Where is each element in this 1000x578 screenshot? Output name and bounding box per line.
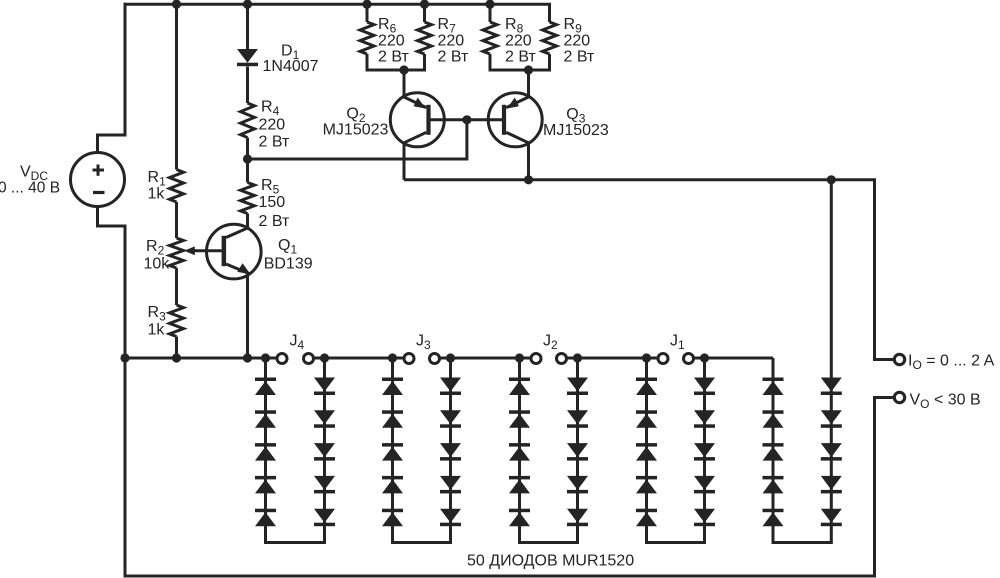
label R9 220 2W <box>564 16 595 66</box>
label J2 <box>543 333 558 353</box>
wire bottom row <box>578 357 647 360</box>
label 0 ... 40 V <box>0 180 60 197</box>
diode MUR1520 string4 right 2 <box>694 410 715 428</box>
svg-text:2 Вт: 2 Вт <box>438 49 469 66</box>
resistor R5 <box>241 183 255 214</box>
svg-text:220: 220 <box>438 33 465 50</box>
label D1 1N4007 <box>263 42 319 74</box>
label R1 1k <box>148 169 167 203</box>
wire top rail to R8 <box>489 4 492 22</box>
wire bottom rail <box>124 575 877 578</box>
wire top rail to R9 <box>548 4 551 22</box>
label Q2 MJ15023 <box>323 105 389 138</box>
wire R2-R3 <box>175 268 178 305</box>
diode MUR1520 string4 right 3 <box>694 443 715 461</box>
diode MUR1520 string1 left 3 <box>255 443 276 461</box>
diode MUR1520 string3 right 4 <box>567 476 588 494</box>
label J4 <box>290 333 305 353</box>
wire string3 bottom U <box>518 541 579 544</box>
junction top rail / R8 <box>485 0 494 9</box>
diode MUR1520 string2 left 2 <box>382 410 403 428</box>
diode MUR1520 string2 right 2 <box>440 410 461 428</box>
resistor R9 <box>543 22 557 54</box>
diode MUR1520 string4 left 3 <box>636 443 657 461</box>
wire R8-R9 junction bar <box>489 69 552 72</box>
diode MUR1520 string3 right 2 <box>567 410 588 428</box>
label R5 150 2W <box>259 177 290 230</box>
wire Q3 emitter <box>527 70 530 98</box>
junction base node <box>462 115 471 124</box>
junction row / string4 left <box>642 353 651 362</box>
wire string2 left column <box>391 358 394 543</box>
svg-text:BD139: BD139 <box>264 256 313 273</box>
wire string4 left column <box>645 358 648 543</box>
wire R9 bottom <box>548 54 551 70</box>
wire top rail to D1 <box>246 4 249 49</box>
diode MUR1520 string3 right 3 <box>567 443 588 461</box>
wire output rail <box>404 180 894 360</box>
wire R5 to Q1 collector <box>246 214 249 229</box>
diode MUR1520 string4 right 1 <box>694 378 715 396</box>
diode MUR1520 string5 left 1 <box>763 378 784 396</box>
diode MUR1520 string5 right 1 <box>821 378 842 396</box>
junction top rail / R7 <box>420 0 429 9</box>
node A junction <box>243 154 252 163</box>
wire bottom row <box>451 357 520 360</box>
label R4 220 2W <box>259 99 290 151</box>
wire Q1 emitter down <box>246 275 249 358</box>
wire Q3 collector down <box>527 142 530 180</box>
diode MUR1520 string1 right 5 <box>314 509 335 527</box>
wire VO return <box>875 398 895 577</box>
junction bottom row / Q1 emitter <box>243 353 252 362</box>
wire R3 bottom <box>175 337 178 359</box>
svg-text:R4: R4 <box>261 99 280 119</box>
label VO < 30 V <box>910 391 981 411</box>
wire string3 right column <box>576 358 579 543</box>
diode MUR1520 string5 left 4 <box>763 476 784 494</box>
junction row / string1 left <box>261 353 270 362</box>
junction R6 R7 / Q2 emitter <box>399 65 408 74</box>
diode MUR1520 string5 right 3 <box>821 443 842 461</box>
diode MUR1520 string4 left 4 <box>636 476 657 494</box>
diode MUR1520 string2 right 1 <box>440 378 461 396</box>
diode MUR1520 string2 left 5 <box>382 509 403 527</box>
potentiometer R2 <box>170 238 184 268</box>
wire string3 left column <box>518 358 521 543</box>
wire Q2 base to Q3 base <box>430 118 503 121</box>
label R6 220 2W <box>378 16 409 66</box>
svg-text:J3: J3 <box>416 333 431 353</box>
diode MUR1520 string1 right 4 <box>314 476 335 494</box>
diode MUR1520 string3 left 5 <box>509 509 530 527</box>
resistor R6 <box>360 22 374 54</box>
wire left rail lower <box>98 206 126 575</box>
svg-text:10k: 10k <box>144 255 171 272</box>
junction top rail / D1 column <box>243 0 252 9</box>
wire D1-R4 <box>246 67 249 104</box>
diode MUR1520 string1 right 3 <box>314 443 335 461</box>
svg-text:220: 220 <box>259 116 286 133</box>
svg-text:2 Вт: 2 Вт <box>259 213 290 230</box>
wire R7 bottom <box>423 54 426 70</box>
diode MUR1520 string3 left 1 <box>509 378 530 396</box>
label Q3 MJ15023 <box>543 106 609 139</box>
diode MUR1520 string2 left 1 <box>382 378 403 396</box>
junction row / string3 right <box>573 353 582 362</box>
diode MUR1520 string5 right 2 <box>821 410 842 428</box>
label R2 10k <box>144 238 171 272</box>
label R7 220 2W <box>438 16 469 66</box>
diode MUR1520 string1 left 1 <box>255 378 276 396</box>
jumper J4 <box>266 354 325 364</box>
diode MUR1520 string1 right 1 <box>314 378 335 396</box>
voltage source VDC <box>71 153 125 207</box>
terminal IO <box>894 354 904 364</box>
svg-text:2 Вт: 2 Вт <box>378 49 409 66</box>
transistor Q2 <box>390 93 444 147</box>
svg-text:1k: 1k <box>148 322 166 339</box>
junction row / string2 right <box>446 353 455 362</box>
svg-text:220: 220 <box>564 33 591 50</box>
wire row to string5 left <box>705 357 774 360</box>
diode MUR1520 string1 right 2 <box>314 410 335 428</box>
svg-text:IO = 0 ... 2 A: IO = 0 ... 2 A <box>908 352 995 372</box>
wire string4 bottom U <box>645 541 706 544</box>
svg-text:J2: J2 <box>543 333 558 353</box>
diode MUR1520 string5 left 3 <box>763 443 784 461</box>
diode MUR1520 string3 right 1 <box>567 378 588 396</box>
svg-text:0 ... 40 В: 0 ... 40 В <box>0 180 60 197</box>
diode MUR1520 string1 left 5 <box>255 509 276 527</box>
wire R6 bottom <box>366 54 369 70</box>
svg-text:2 Вт: 2 Вт <box>505 49 536 66</box>
label R8 220 2W <box>505 16 536 66</box>
wire left rail upper <box>98 3 126 153</box>
diode MUR1520 string4 left 2 <box>636 410 657 428</box>
diode MUR1520 string1 left 2 <box>255 410 276 428</box>
wire top rail to R6 <box>366 4 369 22</box>
junction R8 R9 / Q3 emitter <box>524 65 533 74</box>
label J1 <box>670 333 685 353</box>
wire top rail to R7 <box>423 4 426 22</box>
junction bottom row / left rail <box>120 353 129 362</box>
svg-text:220: 220 <box>505 33 532 50</box>
diode MUR1520 string2 left 4 <box>382 476 403 494</box>
svg-text:150: 150 <box>259 194 286 211</box>
svg-text:50 ДИОДОВ MUR1520: 50 ДИОДОВ MUR1520 <box>467 553 634 570</box>
transistor Q3 <box>488 93 542 147</box>
label Q1 BD139 <box>264 237 313 272</box>
wire string5 left column <box>772 358 775 543</box>
resistor R8 <box>483 22 497 54</box>
wire R1-R2 <box>175 202 178 238</box>
wire node A to base node <box>248 120 467 159</box>
diode MUR1520 string1 left 4 <box>255 476 276 494</box>
diode MUR1520 string5 right 4 <box>821 476 842 494</box>
diode MUR1520 string2 right 4 <box>440 476 461 494</box>
wire Q2 emitter <box>403 70 406 98</box>
transistor Q1 <box>207 224 262 279</box>
junction bottom row / R column <box>172 353 181 362</box>
diode MUR1520 string4 left 5 <box>636 509 657 527</box>
diode MUR1520 string3 left 2 <box>509 410 530 428</box>
junction row / string2 left <box>388 353 397 362</box>
svg-text:1N4007: 1N4007 <box>263 58 319 75</box>
diode MUR1520 string3 right 5 <box>567 509 588 527</box>
svg-text:J4: J4 <box>290 333 305 353</box>
resistor R4 <box>241 103 255 138</box>
label R3 1k <box>148 304 167 339</box>
resistor R7 <box>418 22 432 54</box>
label J3 <box>416 333 431 353</box>
terminal VO <box>894 392 904 402</box>
wire R column top <box>175 4 178 169</box>
jumper J2 <box>520 354 578 364</box>
diode MUR1520 string2 right 5 <box>440 509 461 527</box>
jumper J1 <box>647 354 705 364</box>
svg-text:MJ15023: MJ15023 <box>323 121 389 138</box>
svg-text:J1: J1 <box>670 333 685 353</box>
junction row / string4 right <box>700 353 709 362</box>
wire R6-R7 junction bar <box>366 69 427 72</box>
resistor R3 <box>170 305 184 337</box>
label 50 diodes MUR1520 <box>467 553 634 570</box>
svg-text:2 Вт: 2 Вт <box>564 49 595 66</box>
resistor R1 <box>170 170 184 203</box>
wire string1 left column <box>264 358 267 543</box>
wire string2 bottom U <box>391 541 452 544</box>
diode MUR1520 string3 left 3 <box>509 443 530 461</box>
svg-text:Q1: Q1 <box>278 237 297 257</box>
junction output rail / diode column 10 <box>827 175 836 184</box>
junction top rail / R column <box>172 0 181 9</box>
label VDC <box>20 164 48 184</box>
junction row / string3 left <box>515 353 524 362</box>
diode MUR1520 string4 left 1 <box>636 378 657 396</box>
diode MUR1520 string2 right 3 <box>440 443 461 461</box>
diode MUR1520 string2 left 3 <box>382 443 403 461</box>
svg-text:VO < 30 В: VO < 30 В <box>910 391 981 411</box>
wire string5 bottom U <box>772 541 833 544</box>
wire R4-R5 <box>246 138 249 183</box>
diode MUR1520 string5 right 5 <box>821 509 842 527</box>
junction row / string1 right <box>320 353 329 362</box>
diode MUR1520 string4 right 5 <box>694 509 715 527</box>
wire bottom row <box>325 357 393 360</box>
diode MUR1520 string5 left 2 <box>763 410 784 428</box>
wire string1 bottom U <box>264 541 326 544</box>
junction output rail / Q3 collector <box>524 175 533 184</box>
wire string1 right column <box>323 358 326 543</box>
diode MUR1520 string5 left 5 <box>763 509 784 527</box>
wire string5 right column <box>830 180 833 543</box>
jumper J3 <box>393 354 451 364</box>
wire string2 right column <box>449 358 452 543</box>
diode MUR1520 string4 right 4 <box>694 476 715 494</box>
svg-text:2 Вт: 2 Вт <box>259 133 290 150</box>
svg-text:MJ15023: MJ15023 <box>543 122 609 139</box>
wire top rail <box>124 3 552 6</box>
svg-text:1k: 1k <box>148 186 166 203</box>
wire bottom row left <box>125 357 266 360</box>
junction top rail / R6 <box>362 0 371 9</box>
wire R8 bottom <box>489 54 492 70</box>
svg-text:220: 220 <box>378 33 405 50</box>
wire Q2 collector down <box>403 142 406 180</box>
diode MUR1520 string3 left 4 <box>509 476 530 494</box>
wire string4 right column <box>703 358 706 543</box>
label IO = 0 ... 2 A <box>908 352 995 372</box>
diode D1 <box>237 49 258 66</box>
wiper arrow R2 to Q1 base <box>184 246 222 255</box>
